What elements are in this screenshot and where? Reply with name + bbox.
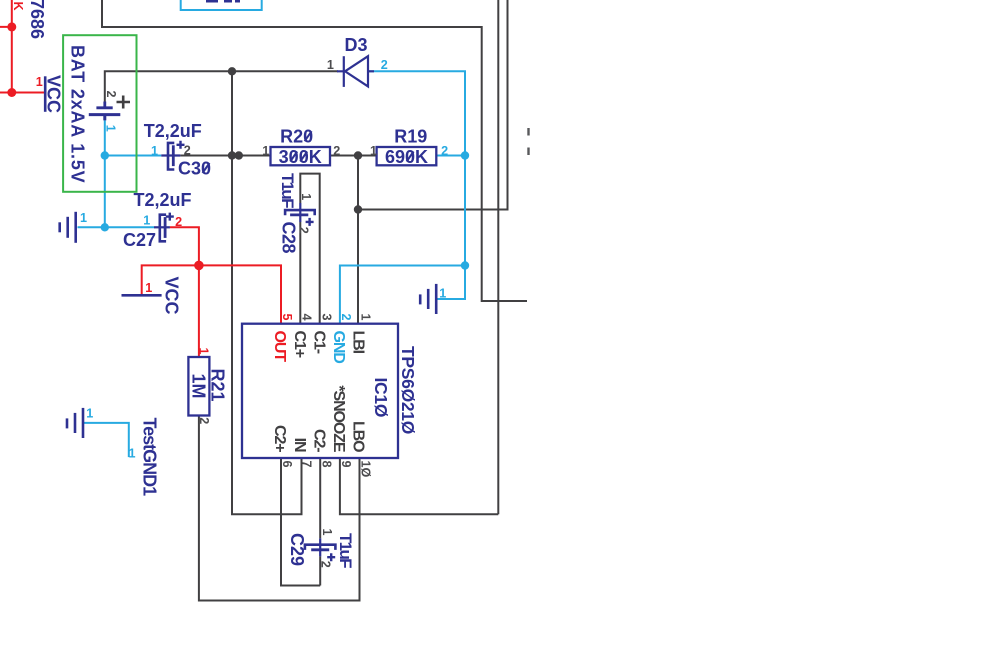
- svg-text:6: 6: [280, 461, 294, 468]
- svg-text:1: 1: [36, 75, 43, 89]
- svg-text:7: 7: [300, 461, 314, 468]
- svg-text:1: 1: [327, 58, 334, 72]
- svg-text:C28: C28: [279, 222, 299, 254]
- svg-text:1: 1: [80, 211, 87, 225]
- junction cyan at GND1: [101, 223, 109, 231]
- box cyan top clipped frame: [181, 0, 262, 10]
- svg-text:1M: 1M: [189, 373, 209, 398]
- resistor R20 box: [271, 147, 331, 165]
- svg-text:2: 2: [184, 144, 191, 158]
- svg-text:*SNOOZE: *SNOOZE: [330, 385, 347, 453]
- svg-text:5: 5: [280, 313, 294, 320]
- wire main vertical battery net x=232 down to IN loop: [232, 71, 302, 514]
- wire black vertical long at x=498: [497, 0, 499, 514]
- svg-text:C1+: C1+: [291, 331, 308, 358]
- wire red VCC node to VCC2 symbol: [142, 265, 199, 294]
- svg-text:2: 2: [297, 227, 311, 234]
- ground GND1 symbol: [60, 212, 76, 243]
- wire red left vertical with stubs: [0, 0, 44, 93]
- svg-text:VCC: VCC: [162, 276, 182, 314]
- svg-text:D3: D3: [344, 35, 367, 55]
- value 690K: [385, 147, 428, 167]
- svg-text:TPS6Ø21Ø: TPS6Ø21Ø: [398, 346, 418, 434]
- capacitor C30: [161, 141, 184, 170]
- stub dash lower right: [527, 148, 529, 156]
- junction red lower: [7, 88, 16, 97]
- svg-text:R21: R21: [208, 369, 228, 402]
- capacitor C27: [154, 213, 174, 242]
- svg-text:2: 2: [175, 215, 182, 229]
- svg-text:1: 1: [151, 144, 158, 158]
- wire cyan ground net GND1 to C27 pin1: [78, 226, 155, 228]
- stub dash upper right: [527, 128, 529, 136]
- resistor R21 box: [188, 357, 209, 416]
- svg-text:1: 1: [128, 446, 135, 460]
- svg-text:TestGND1: TestGND1: [140, 418, 160, 497]
- svg-text:1: 1: [262, 144, 269, 158]
- wire battery plus to node and to D3 anode: [105, 71, 338, 101]
- svg-text:C1-: C1-: [311, 331, 328, 354]
- svg-text:1: 1: [196, 347, 210, 354]
- junction node LBI branch: [354, 205, 362, 213]
- wire cyan D3 cathode net down right side: [367, 71, 465, 299]
- label C30: [178, 158, 211, 178]
- svg-text:1: 1: [370, 144, 377, 158]
- wire C28 pin2 to IC pin4: [299, 222, 301, 324]
- svg-text:9: 9: [339, 461, 353, 468]
- resistor R19 box: [377, 147, 437, 165]
- svg-text:2: 2: [104, 90, 118, 97]
- capacitor C28: [285, 203, 315, 226]
- svg-text:2: 2: [381, 58, 388, 72]
- wire red C27 pin2 down to VCC node: [170, 227, 199, 357]
- svg-text:GND: GND: [330, 331, 347, 364]
- svg-text:2: 2: [333, 144, 340, 158]
- svg-text:4: 4: [300, 313, 314, 320]
- wire cyan TestGND stub: [84, 423, 129, 457]
- svg-text:K: K: [11, 2, 25, 11]
- ground GND2 symbol: [420, 284, 436, 314]
- svg-text:BAT 2xAA 1.5V: BAT 2xAA 1.5V: [68, 45, 88, 183]
- junction cyan at R19: [461, 151, 469, 159]
- wire R21 pin2 to IC pin10: [199, 416, 360, 601]
- label R20: [280, 127, 313, 147]
- svg-text:C2+: C2+: [271, 425, 288, 452]
- wire C29 pin2 stub: [319, 556, 321, 585]
- label IC10: [371, 378, 391, 418]
- svg-text:OUT: OUT: [271, 331, 288, 363]
- svg-text:8: 8: [319, 461, 333, 468]
- svg-text:1: 1: [104, 125, 118, 132]
- wire IC pin6 loop to C29 pin2: [281, 458, 320, 586]
- label TPS60210: [398, 346, 418, 434]
- svg-text:7686: 7686: [27, 0, 47, 39]
- wire red VCC node to IC pin5 OUT: [199, 265, 281, 324]
- op-amp IC10 TPS60210 box: [242, 324, 398, 458]
- battery G1 symbol plates: [89, 102, 121, 121]
- svg-text:C2-: C2-: [311, 429, 328, 452]
- diode D3: [337, 56, 374, 87]
- svg-text:1: 1: [299, 193, 313, 200]
- wire C30 pin2 to R20 pin1: [180, 155, 270, 157]
- svg-text:LBO: LBO: [350, 421, 367, 452]
- svg-text:2: 2: [319, 561, 333, 568]
- svg-text:R19: R19: [394, 127, 427, 147]
- svg-text:1: 1: [359, 313, 373, 320]
- svg-text:1Ø: 1Ø: [359, 461, 373, 478]
- wire cyan branch to IC pin2 GND: [340, 266, 465, 325]
- svg-text:LBI: LBI: [350, 331, 367, 354]
- junction node battery net at C30: [228, 151, 236, 159]
- svg-text:T2,2uF: T2,2uF: [144, 121, 202, 141]
- junction cyan at C30 branch: [101, 151, 109, 159]
- svg-text:690K: 690K: [385, 147, 428, 167]
- capacitor C29: [305, 538, 336, 561]
- svg-text:1: 1: [439, 286, 446, 300]
- svg-text:2: 2: [197, 417, 211, 424]
- ground GND3 symbol TestGND: [67, 408, 83, 438]
- wire R20 pin2 to R19 pin1: [330, 155, 377, 157]
- svg-text:1: 1: [145, 281, 152, 295]
- svg-text:1: 1: [320, 528, 334, 535]
- wire IC pin8 to C29 pin1: [319, 458, 321, 538]
- svg-text:1: 1: [86, 406, 93, 420]
- wire IC pin9 to vertical x=498: [340, 458, 498, 514]
- svg-text:T2,2uF: T2,2uF: [133, 190, 191, 210]
- svg-text:C27: C27: [123, 230, 156, 250]
- VCC supply symbol upper left: [44, 76, 47, 112]
- junction node R20-R19: [354, 151, 362, 159]
- svg-text:IC1Ø: IC1Ø: [371, 378, 391, 418]
- svg-text:2: 2: [339, 313, 353, 320]
- svg-text:T1uF: T1uF: [336, 533, 355, 568]
- wire black vertical x=507 with branch to node at x=358: [358, 0, 508, 210]
- wire cyan battery minus down to ground net: [104, 120, 106, 227]
- svg-text:T1uF: T1uF: [278, 173, 297, 208]
- svg-text:300K: 300K: [279, 147, 322, 167]
- junction red VCC node: [194, 261, 204, 271]
- wire cyan R19 pin2 to net: [436, 155, 465, 157]
- battery plus sign: [117, 96, 131, 109]
- VCC supply symbol mid (bar): [122, 294, 162, 297]
- svg-text:VCC: VCC: [44, 75, 64, 113]
- wire cyan battery net to C30 pin1: [105, 155, 162, 157]
- junction red upper: [7, 22, 16, 31]
- wire black frame top-left going right and down (module outline): [102, 0, 527, 301]
- svg-text:3: 3: [319, 313, 333, 320]
- svg-text:2: 2: [441, 144, 448, 158]
- wire node to IC pin1 LBI: [357, 156, 359, 325]
- svg-text:1: 1: [143, 213, 150, 227]
- value 300K: [279, 147, 322, 167]
- box green battery frame: [63, 35, 136, 192]
- svg-text:IN: IN: [291, 438, 308, 452]
- wire C28 loop pin4 to pin3: [300, 174, 319, 324]
- junction node battery net at C30 second dot: [235, 151, 243, 159]
- text remnant inside cyan box: [206, 0, 240, 3]
- junction cyan at GND2 branch: [461, 261, 469, 269]
- junction node battery net at D3: [228, 67, 236, 75]
- svg-text:C29: C29: [287, 533, 307, 566]
